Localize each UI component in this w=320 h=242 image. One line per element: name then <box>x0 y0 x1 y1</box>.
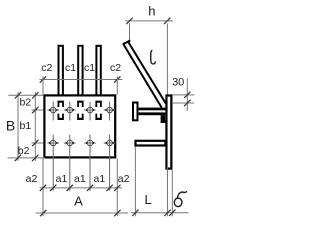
svg-text:b2: b2 <box>20 97 32 109</box>
tick 30 top <box>184 92 190 98</box>
label script l (strut length) <box>151 51 155 64</box>
30 dimension extension line bottom <box>172 102 194 104</box>
tick A left <box>40 210 46 216</box>
tick a at plate right <box>114 185 120 191</box>
extension line delta right <box>171 170 173 217</box>
upper arm end plate <box>133 103 138 121</box>
svg-text:c1: c1 <box>84 62 95 74</box>
tick A right <box>114 210 120 216</box>
tick L left <box>132 210 138 216</box>
svg-text:c1: c1 <box>65 62 76 74</box>
extension line h right (to post top) <box>166 23 168 94</box>
tick a at bolt 2 <box>67 185 73 191</box>
tick b at plate bottom <box>32 155 38 161</box>
tick at c-line left <box>40 76 46 82</box>
30 dimension extension line top (post top) <box>172 94 194 96</box>
dimension line b (inner left) <box>34 92 36 161</box>
tick 30 bottom <box>184 100 190 106</box>
label delta <box>174 192 186 207</box>
extension line plate top to left <box>8 94 43 96</box>
tick B bottom <box>15 155 21 161</box>
svg-text:c2: c2 <box>41 62 52 74</box>
extension line below plate left <box>42 159 44 217</box>
base plate outline <box>44 95 115 157</box>
extension line above plate right <box>116 76 118 94</box>
tick a at bolt 3 <box>87 185 93 191</box>
column post 3 (plan, above plate) <box>96 46 100 96</box>
svg-text:b1: b1 <box>20 120 32 132</box>
tick a at bolt 4 <box>106 185 112 191</box>
channel mark (post 3 cross-section) <box>95 101 101 120</box>
anchor bolt A3 (top row) <box>84 102 96 121</box>
tick a at bolt 1 <box>50 185 56 191</box>
upper bracket arm (elevation) <box>139 108 166 116</box>
tick h right <box>164 18 170 24</box>
anchor bolt B2 (bottom row) <box>64 135 76 191</box>
anchor bolt A2 (top row) <box>64 102 76 121</box>
channel mark (post 2 cross-section) <box>77 101 83 120</box>
anchor bolt B3 (bottom row) <box>84 135 96 191</box>
svg-text:b2: b2 <box>18 145 30 157</box>
tick at c-line right <box>114 76 120 82</box>
extension line bolt row 2 to left <box>32 142 44 144</box>
anchor bolt B4 (bottom row) <box>104 135 116 191</box>
anchor bolt A4 (top row) <box>104 102 116 121</box>
extension line bolt row 1 to left <box>32 109 44 111</box>
tick delta right <box>169 210 175 216</box>
extension line inside post / delta left <box>166 150 168 216</box>
extension line h left (to strut top) <box>129 23 131 40</box>
diagonal strut (brace) <box>123 40 166 107</box>
dimension line h <box>125 20 172 22</box>
extension line plate bottom to left <box>8 157 46 159</box>
tick b at plate top <box>32 92 38 98</box>
column post 1 (plan, above plate) <box>59 46 63 96</box>
svg-text:A: A <box>74 194 83 209</box>
svg-text:30: 30 <box>172 76 184 88</box>
anchor bolt B1 (bottom row) <box>47 135 59 191</box>
tick B top <box>15 92 21 98</box>
tick L right / delta left <box>164 210 170 216</box>
dimension line a (bottom chain) <box>40 187 122 189</box>
lower bracket arm (elevation) <box>136 141 166 146</box>
seat step under upper arm <box>161 115 166 123</box>
extension line below plate right <box>116 159 118 217</box>
column post 2 (plan, above plate) <box>78 46 82 96</box>
svg-text:a1: a1 <box>74 173 86 185</box>
tick a at plate left <box>40 185 46 191</box>
dimension line B (outer left) <box>17 92 19 161</box>
30 dimension line <box>186 79 188 111</box>
svg-text:a1: a1 <box>94 173 106 185</box>
extension line above plate left <box>42 76 44 94</box>
svg-text:a2: a2 <box>118 173 130 185</box>
svg-text:a2: a2 <box>26 173 38 185</box>
anchor bolt A1 (top row) <box>47 102 59 121</box>
tick b at row 1 <box>32 107 38 113</box>
dimension line A <box>36 212 129 214</box>
column post (elevation) <box>166 96 171 169</box>
channel mark (post 1 cross-section) <box>58 101 64 120</box>
dimension line L and delta <box>131 212 189 214</box>
svg-text:L: L <box>144 192 151 207</box>
tick b at row 2 <box>32 140 38 146</box>
svg-text:B: B <box>6 117 15 133</box>
tick h left <box>126 18 132 24</box>
svg-text:c2: c2 <box>110 62 121 74</box>
svg-text:a1: a1 <box>56 173 68 185</box>
extension line L left (from lower arm end) <box>134 147 136 217</box>
dimension line c (top chain) <box>40 79 123 81</box>
svg-text:h: h <box>148 3 155 18</box>
